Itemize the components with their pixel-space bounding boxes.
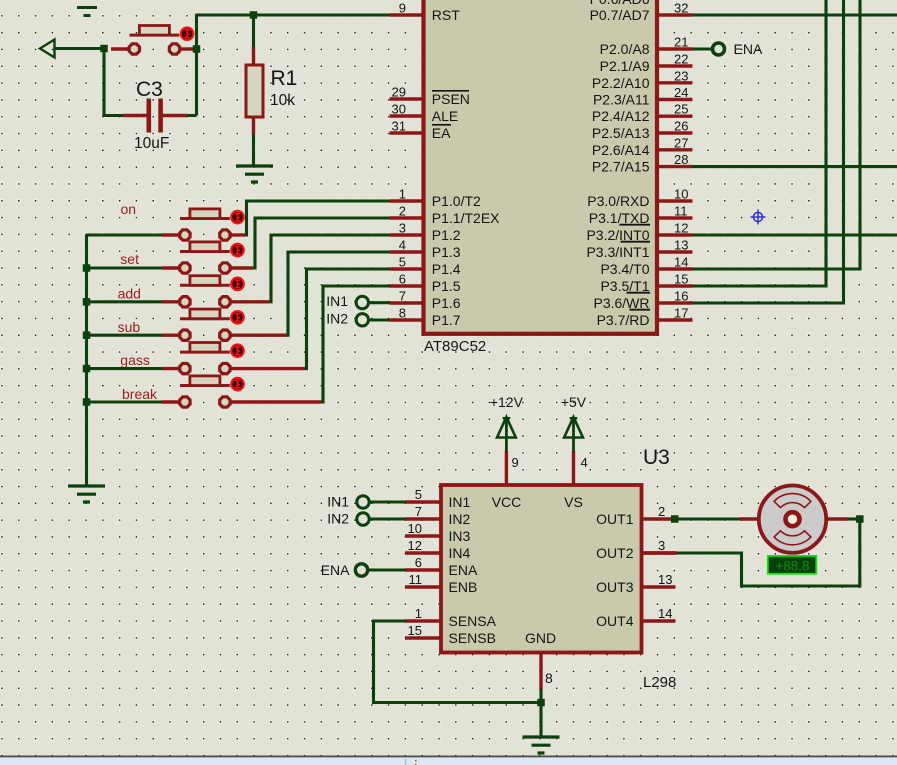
svg-text:P1.3: P1.3 — [432, 244, 461, 260]
svg-text:sub: sub — [118, 319, 141, 335]
svg-text:RST: RST — [432, 7, 460, 23]
svg-text:EA: EA — [432, 125, 451, 141]
svg-text:+5V: +5V — [561, 394, 587, 410]
junction motor right — [856, 515, 864, 523]
pin 14 (P3.4/T0) — [600, 255, 692, 278]
pin 8 (P1.7) — [390, 306, 461, 329]
capacitor C3 — [123, 99, 187, 133]
pin 30 (ALE) — [390, 102, 459, 125]
svg-text:gass: gass — [120, 352, 150, 368]
pin left of button break — [162, 400, 180, 403]
junction at OUT1 — [671, 515, 679, 523]
pin 17 (P3.7/RD) — [597, 306, 693, 329]
svg-text:P1.5: P1.5 — [432, 278, 461, 294]
pin 29 (PSEN) — [390, 85, 470, 108]
svg-text:11: 11 — [409, 572, 423, 587]
svg-text:24: 24 — [674, 85, 688, 100]
wire P2.7 to right edge — [693, 165, 897, 168]
motor display +88.8 — [768, 556, 817, 574]
pin right of button on — [230, 233, 245, 236]
pin 22 (P2.1/A9) — [600, 52, 693, 75]
node ENA (L298) — [355, 564, 367, 576]
wire P3.2/INT0 to right edge — [693, 233, 897, 236]
svg-text:1: 1 — [399, 187, 406, 202]
pin left of button set — [162, 266, 180, 269]
svg-text:5: 5 — [399, 255, 406, 270]
resistor R1 — [246, 15, 263, 135]
svg-text:29: 29 — [392, 85, 406, 100]
pin 11 (P3.1/TXD) — [589, 204, 693, 227]
ground (partial, top-left) — [77, 8, 97, 16]
push-button add — [180, 276, 244, 307]
svg-text:27: 27 — [674, 135, 688, 150]
wire button break to P1.5 — [321, 286, 390, 402]
wire button set to P1.1 — [253, 218, 390, 268]
svg-text:set: set — [120, 251, 139, 267]
pin 12 (P3.2/INT0) — [586, 221, 692, 244]
wire IN2 to P1.7 — [369, 318, 391, 321]
pin right of button break — [230, 400, 321, 403]
push-button gass — [180, 343, 244, 374]
pin left of reset button — [111, 47, 128, 50]
svg-text:P3.3/INT1: P3.3/INT1 — [586, 244, 649, 260]
svg-text:16: 16 — [674, 289, 688, 304]
pin 7 (P1.6) — [390, 289, 461, 312]
wire ENA to pin 6 — [368, 568, 406, 571]
pin 2 (OUT1) — [596, 504, 675, 527]
left bus wire — [85, 235, 88, 486]
svg-text:P3.2/INT0: P3.2/INT0 — [586, 227, 649, 243]
svg-text:P1.1/T2EX: P1.1/T2EX — [432, 210, 500, 226]
pin 3 (P1.2) — [390, 221, 461, 244]
svg-text:SENSB: SENSB — [449, 630, 496, 646]
wire P2.0 to ENA node — [693, 47, 712, 50]
svg-text:IN4: IN4 — [449, 545, 471, 561]
node IN1 (upper) — [356, 296, 368, 308]
svg-text:1: 1 — [415, 606, 422, 621]
pin 9 (RST) — [390, 1, 461, 24]
svg-text:PSEN: PSEN — [432, 91, 470, 107]
svg-text:ENA: ENA — [734, 41, 763, 57]
pin 23 (P2.2/A10) — [592, 68, 693, 91]
svg-text:11: 11 — [674, 204, 688, 219]
svg-text:ENA: ENA — [321, 562, 350, 578]
wire C3 right to node B — [187, 114, 197, 117]
svg-text:5: 5 — [415, 487, 422, 502]
push-button on — [180, 209, 244, 240]
svg-text:P3.5/T1: P3.5/T1 — [600, 278, 649, 294]
svg-text:P1.2: P1.2 — [432, 227, 461, 243]
svg-text:IN1: IN1 — [449, 494, 471, 510]
svg-text:P1.7: P1.7 — [432, 312, 461, 328]
svg-text:IN2: IN2 — [327, 511, 349, 527]
wire bus to button set — [87, 266, 163, 269]
pin right of button set — [230, 266, 253, 269]
svg-text:IN2: IN2 — [449, 511, 471, 527]
pin 13 (P3.3/INT1) — [586, 238, 692, 261]
svg-text:GND: GND — [525, 630, 556, 646]
push-button sub — [180, 309, 244, 340]
pin right of button gass — [230, 367, 305, 370]
pin 3 (OUT2) — [596, 538, 675, 561]
microcontroller U1 AT89C52 — [424, 0, 658, 334]
svg-text:10k: 10k — [270, 92, 295, 109]
svg-text:IN3: IN3 — [449, 528, 471, 544]
svg-text:P2.4/A12: P2.4/A12 — [592, 108, 650, 124]
pin right of reset button — [181, 47, 194, 50]
wire R1 to ground — [252, 134, 255, 166]
pin 4 (P1.3) — [390, 238, 461, 261]
node ENA (top) — [713, 43, 725, 55]
junction on bus — [83, 264, 91, 272]
svg-text:7: 7 — [399, 289, 406, 304]
wire button sub to P1.3 — [286, 252, 390, 335]
wire motor right terminal loop to OUT2 — [848, 517, 856, 520]
pin 27 (P2.6/A14) — [592, 135, 693, 158]
svg-text:15: 15 — [408, 623, 422, 638]
wire SENSA to ground net — [374, 621, 542, 703]
wire button on to P1.0 — [245, 201, 390, 235]
svg-text:P3.4/T0: P3.4/T0 — [600, 261, 649, 277]
pin 6 (P1.5) — [390, 272, 461, 295]
svg-text:P3.0/RXD: P3.0/RXD — [587, 193, 649, 209]
wire arrow to node A — [55, 47, 105, 50]
svg-text:2: 2 — [658, 504, 665, 519]
svg-text:30: 30 — [392, 102, 406, 117]
pin left of button add — [162, 300, 180, 303]
pin 26 (P2.5/A13) — [592, 119, 693, 142]
wire P3.4/T0 up off-screen — [693, 0, 861, 269]
pin left of button gass — [162, 367, 180, 370]
svg-text:C3: C3 — [136, 78, 163, 101]
pin 31 (EA) — [390, 119, 452, 142]
svg-text:P3.1/TXD: P3.1/TXD — [589, 210, 650, 226]
wire button add to P1.2 — [269, 235, 390, 302]
svg-text:9: 9 — [512, 455, 519, 470]
ground below button bus — [68, 486, 105, 502]
wire button gass to P1.4 — [305, 269, 390, 369]
pin 9 (VCC) — [506, 451, 518, 485]
svg-text:P2.7/A15: P2.7/A15 — [592, 159, 650, 175]
pin 28 (P2.7/A15) — [592, 152, 693, 175]
svg-text:15: 15 — [674, 272, 688, 287]
pin 12 (IN4) — [405, 538, 471, 561]
svg-text:on: on — [121, 201, 137, 217]
node IN2 (upper) — [356, 314, 368, 326]
svg-text:P2.1/A9: P2.1/A9 — [600, 58, 650, 74]
svg-text:U3: U3 — [643, 446, 670, 469]
svg-text:10uF: 10uF — [134, 135, 169, 152]
svg-text:R1: R1 — [271, 67, 298, 90]
power +5V — [564, 417, 583, 452]
pin 11 (ENB) — [405, 572, 477, 595]
wire bus to button gass — [87, 367, 163, 370]
wire OUT2 pin — [642, 551, 678, 554]
svg-text:L298: L298 — [643, 674, 676, 691]
svg-text:3: 3 — [658, 538, 665, 553]
junction node A — [100, 45, 108, 53]
overline EA — [432, 124, 451, 126]
svg-text:12: 12 — [408, 538, 422, 553]
svg-text:+12V: +12V — [490, 394, 524, 410]
svg-text:+88.8: +88.8 — [775, 559, 809, 574]
push-button reset — [129, 26, 193, 55]
svg-text:25: 25 — [674, 102, 688, 117]
wire P0.7 to right edge — [693, 13, 897, 16]
svg-text:AT89C52: AT89C52 — [424, 338, 486, 355]
svg-text:ENA: ENA — [449, 562, 478, 578]
svg-text:IN1: IN1 — [326, 293, 348, 309]
wire bus to button break — [87, 400, 163, 403]
svg-text:VS: VS — [564, 494, 583, 510]
wire P3.5/T1 up off-screen — [693, 0, 827, 286]
pin left of button sub — [162, 334, 180, 337]
svg-text:OUT1: OUT1 — [596, 511, 634, 527]
wire node A down to C3 left — [104, 49, 123, 116]
pin 5 (P1.4) — [390, 255, 461, 278]
svg-text:2: 2 — [399, 204, 406, 219]
svg-text:8: 8 — [545, 670, 553, 686]
wire bus to button add — [87, 300, 163, 303]
svg-text:VCC: VCC — [492, 494, 522, 510]
svg-text:IN2: IN2 — [326, 311, 348, 327]
svg-text:P3.6/WR: P3.6/WR — [593, 295, 649, 311]
svg-text:P2.2/A10: P2.2/A10 — [592, 75, 650, 91]
pin 21 (P2.0/A8) — [600, 35, 693, 58]
svg-text:add: add — [118, 285, 141, 301]
svg-text:P1.0/T2: P1.0/T2 — [432, 193, 481, 209]
input terminal arrow — [40, 40, 55, 58]
svg-text:22: 22 — [674, 52, 688, 67]
pin 25 (P2.4/A12) — [592, 102, 693, 125]
svg-text:4: 4 — [581, 455, 588, 470]
junction node B — [193, 45, 201, 53]
pin 14 (OUT4) — [596, 606, 675, 629]
power +12V — [497, 417, 516, 452]
pin 15 (SENSB) — [405, 623, 496, 646]
wire IN1 to pin 5 — [369, 500, 406, 503]
svg-text:SENSA: SENSA — [449, 613, 497, 629]
pin 5 (IN1) — [405, 487, 471, 510]
svg-text:ENB: ENB — [449, 579, 478, 595]
junction on bus — [83, 298, 91, 306]
pin 6 (ENA) — [405, 555, 478, 578]
svg-text:P3.7/RD: P3.7/RD — [597, 312, 650, 328]
junction above R1 — [250, 11, 258, 19]
ground below U3 — [523, 737, 560, 753]
svg-text:8: 8 — [399, 306, 406, 321]
pin 1 (SENSA) — [405, 606, 497, 629]
svg-text:31: 31 — [392, 119, 406, 134]
node IN2 (L298) — [357, 513, 369, 525]
pin 10 (P3.0/RXD) — [587, 187, 692, 210]
wire IN2 to pin 7 — [369, 517, 406, 520]
wire node B vertical — [195, 14, 198, 116]
svg-text:23: 23 — [674, 68, 688, 83]
svg-text:P2.3/A11: P2.3/A11 — [593, 92, 650, 108]
motor +88.8 rpm — [740, 486, 848, 553]
svg-text:4: 4 — [399, 238, 406, 253]
svg-text:10: 10 — [408, 521, 422, 536]
pin 24 (P2.3/A11) — [593, 85, 693, 108]
pin 13 (OUT3) — [596, 572, 675, 595]
svg-text:OUT3: OUT3 — [596, 579, 634, 595]
wire P3.6/WR up off-screen — [693, 0, 844, 303]
push-button break — [180, 376, 244, 407]
motor driver U3 L298 — [441, 485, 642, 653]
pin 15 (P3.5/T1) — [600, 272, 692, 295]
window edge — [0, 757, 897, 765]
svg-text:6: 6 — [399, 272, 406, 287]
svg-text:7: 7 — [415, 504, 422, 519]
junction on bus — [83, 398, 91, 406]
wire IN1 to P1.6 — [369, 301, 391, 304]
junction on bus — [83, 331, 91, 339]
wire bus to button sub — [87, 334, 163, 337]
junction on bus — [83, 365, 91, 373]
pin 2 (P1.1/T2EX) — [390, 204, 501, 227]
svg-text:OUT4: OUT4 — [596, 613, 634, 629]
pin 1 (P1.0/T2) — [390, 187, 482, 210]
push-button set — [180, 242, 244, 273]
svg-text:21: 21 — [674, 35, 688, 50]
overline PSEN — [432, 90, 469, 92]
svg-text:17: 17 — [674, 306, 688, 321]
svg-text:28: 28 — [674, 152, 688, 167]
svg-text:13: 13 — [674, 238, 688, 253]
svg-text:14: 14 — [674, 255, 688, 270]
pin 7 (IN2) — [405, 504, 471, 527]
node IN1 (L298) — [357, 496, 369, 508]
svg-text:ALE: ALE — [432, 108, 458, 124]
junction ground net — [537, 699, 545, 707]
svg-text:6: 6 — [415, 555, 422, 570]
svg-text:P2.0/A8: P2.0/A8 — [600, 41, 650, 57]
svg-text:12: 12 — [674, 221, 688, 236]
wire OUT1 to motor — [671, 517, 740, 520]
pin right of button add — [230, 300, 269, 303]
svg-text:14: 14 — [658, 606, 672, 621]
svg-text:3: 3 — [399, 221, 406, 236]
svg-text:P2.5/A13: P2.5/A13 — [592, 125, 650, 141]
pin 4 (VS) — [574, 451, 588, 485]
pin right of button sub — [230, 334, 286, 337]
ground below R1 — [236, 166, 273, 182]
svg-text:P1.4: P1.4 — [432, 261, 461, 277]
svg-text:P0.7/AD7: P0.7/AD7 — [590, 7, 650, 23]
svg-text:26: 26 — [674, 119, 688, 134]
svg-text:13: 13 — [658, 572, 672, 587]
pin left of button on — [162, 233, 180, 236]
svg-text:break: break — [122, 386, 158, 402]
pin 10 (IN3) — [405, 521, 471, 544]
wire bus to button on — [87, 233, 163, 236]
svg-text:OUT2: OUT2 — [596, 545, 634, 561]
pin 16 (P3.6/WR) — [593, 289, 692, 312]
pin 32 (P0.7/AD7) — [590, 1, 693, 24]
svg-text:32: 32 — [674, 1, 688, 16]
svg-text:IN1: IN1 — [327, 494, 349, 510]
svg-text:P1.6: P1.6 — [432, 295, 461, 311]
pin 8 (GND) — [541, 653, 553, 691]
wire top rail to RST — [197, 13, 391, 16]
svg-text:9: 9 — [399, 1, 406, 16]
wire GND pin to ground — [539, 689, 542, 737]
origin marker (blue crosshair) — [751, 210, 766, 225]
svg-text:P2.6/A14: P2.6/A14 — [592, 142, 650, 158]
svg-text:10: 10 — [674, 187, 688, 202]
